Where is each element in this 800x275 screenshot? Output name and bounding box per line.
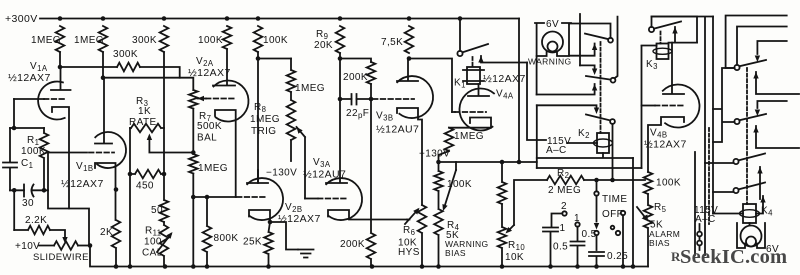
relay K4 coil — [740, 204, 760, 223]
watermark — [671, 246, 787, 268]
switch K4 contact1 — [733, 154, 765, 165]
wire R4 wiper tie — [455, 162, 457, 170]
label 6V — [546, 19, 559, 30]
svg-text:SLIDEWIRE: SLIDEWIRE — [33, 252, 89, 263]
resistor R10 upper — [498, 162, 507, 204]
label 0.5 — [582, 229, 597, 240]
wire V2B grid line — [193, 196, 235, 198]
label 100K — [263, 35, 288, 46]
label V3B — [376, 111, 393, 123]
tube V1B triode — [95, 132, 126, 168]
potentiometer R8 1MEG TRIG — [287, 92, 296, 140]
power +300V label — [5, 13, 38, 25]
label 300K — [132, 35, 157, 46]
svg-text:1MEG: 1MEG — [74, 35, 104, 46]
svg-text:RATE: RATE — [129, 117, 157, 128]
svg-text:450: 450 — [136, 181, 154, 192]
label -130V — [419, 149, 450, 160]
wiper arrow R8 — [297, 127, 306, 199]
wire K2 arm2 down — [580, 65, 597, 75]
svg-text:25K: 25K — [243, 237, 262, 248]
label OFF — [602, 209, 623, 220]
label V2B — [285, 202, 302, 214]
wire K4 contact1 feed — [705, 162, 733, 164]
label R3 1K RATE — [129, 96, 157, 128]
svg-text:BIAS: BIAS — [445, 248, 466, 258]
wire V4B plate — [663, 43, 684, 94]
label 1MEG — [454, 131, 484, 142]
label 30 — [22, 198, 34, 209]
svg-text:100K: 100K — [263, 35, 288, 46]
node A — [58, 65, 63, 70]
wire y168 line — [537, 158, 642, 267]
wire R8 to -130V — [290, 140, 292, 161]
wire V2B cathode — [249, 210, 270, 222]
svg-text:0.5: 0.5 — [582, 229, 597, 240]
node R3 wiper junction — [191, 150, 196, 155]
label 100K — [198, 35, 223, 46]
switch K2 contact3 — [586, 115, 615, 124]
svg-text:BAL: BAL — [197, 133, 217, 144]
svg-text:2 MEG: 2 MEG — [548, 185, 581, 196]
wiper arrow R4 — [442, 170, 456, 211]
wire 200K bottom — [370, 84, 372, 99]
node bottom junctions — [114, 264, 636, 269]
plug 115V — [697, 224, 702, 250]
resistor R2 2MEG — [547, 176, 584, 185]
wire V1A plate — [51, 67, 71, 90]
wire V4A grid — [452, 111, 486, 113]
resistor 25K — [264, 222, 273, 267]
svg-text:200K: 200K — [340, 239, 365, 250]
wire -130V line — [439, 161, 537, 163]
wire rail drops — [527, 63, 546, 169]
resistor 1MEG cathode — [189, 154, 198, 174]
label V3B type — [376, 124, 419, 136]
node -130V junction — [436, 160, 441, 165]
label 22pF — [346, 108, 369, 120]
svg-text:−130V: −130V — [419, 149, 450, 160]
label R11 100 CAL — [142, 226, 163, 259]
resistor 200K bottom — [367, 99, 376, 267]
node 450 ends — [128, 172, 167, 177]
wire lamp feeds — [537, 14, 580, 95]
tube V1A triode — [38, 81, 65, 119]
svg-text:½12AU7: ½12AU7 — [303, 169, 346, 181]
svg-text:1MEG: 1MEG — [31, 35, 61, 46]
label +10V — [15, 241, 40, 252]
resistor R9 20K — [336, 26, 345, 53]
node V2B cathode — [268, 220, 273, 225]
capacitor 30 — [24, 185, 34, 197]
potentiometer R4 5K — [434, 191, 443, 267]
lamp ALARM 6V — [737, 223, 765, 248]
wire V2A plate — [213, 49, 235, 86]
wire V2B plate bar — [247, 170, 268, 183]
lamp WARNING 6V — [535, 23, 571, 56]
svg-text:CAL: CAL — [142, 248, 163, 259]
svg-text:1MEG: 1MEG — [295, 83, 325, 94]
wire V2A cathode — [215, 110, 236, 197]
svg-text:300K: 300K — [113, 49, 138, 60]
potentiometer R11 100 CAL — [157, 222, 173, 267]
wire V1B cathode — [95, 163, 116, 220]
resistor 2K — [112, 220, 121, 267]
resistor 100K V2A plate — [223, 26, 232, 49]
label V2B type — [278, 213, 321, 225]
linkage K2 dashed — [600, 42, 602, 133]
resistor 100K R4 top — [434, 162, 443, 191]
wire V4B grid — [642, 105, 684, 107]
label R6 10K HYS — [398, 225, 420, 258]
svg-text:7,5K: 7,5K — [381, 37, 403, 48]
wire comb line3 — [755, 41, 787, 62]
wire K3 arm — [669, 27, 698, 43]
svg-text:TIME: TIME — [602, 194, 628, 205]
tube V4A triode — [459, 88, 494, 130]
label 6V — [766, 244, 779, 255]
svg-text:100K: 100K — [198, 35, 223, 46]
label 200K — [343, 72, 368, 83]
label V2A type — [188, 67, 231, 79]
wire V1A cathode — [52, 107, 69, 209]
wire R9 bottom node — [340, 53, 371, 99]
svg-text:½12AX7: ½12AX7 — [188, 67, 231, 79]
label V1A type — [8, 72, 51, 84]
svg-text:100: 100 — [144, 237, 162, 248]
capacitor 1 tap2 — [543, 201, 567, 267]
tube V3A triode — [326, 178, 362, 220]
wire cap30 row — [10, 189, 48, 191]
wire 22pF row — [340, 98, 371, 100]
label 0.25 — [607, 251, 628, 262]
label V2A — [196, 56, 214, 68]
wire V1A grid — [14, 98, 66, 100]
wire V3A grid — [305, 198, 346, 200]
switch K4 contact2 — [733, 183, 765, 194]
wire K2 contact3 down arrow — [537, 105, 599, 114]
wire 300K drop — [163, 52, 165, 174]
switch open contacts — [611, 226, 621, 236]
label R1 100K — [21, 135, 46, 157]
svg-text:2: 2 — [561, 201, 567, 212]
node R2 line dots — [594, 178, 615, 183]
node -130V line dots — [500, 160, 522, 165]
node 22pF junctions — [338, 97, 374, 102]
svg-text:TRIG: TRIG — [251, 126, 277, 137]
wire TIME drop — [594, 196, 599, 250]
label 450 — [136, 181, 154, 192]
wire V2B plate line — [258, 52, 291, 183]
label V4A — [496, 89, 514, 101]
relay K1 coil — [463, 67, 484, 84]
tube V3B triode — [397, 76, 433, 118]
wire K1 pivot — [459, 19, 461, 52]
potentiometer R3 1K RATE — [130, 124, 164, 133]
label 800K — [214, 233, 239, 244]
wiper arrow R5 — [637, 207, 648, 222]
switch OFF contact — [621, 211, 625, 267]
wire K4 coil feed — [713, 213, 743, 215]
wire 2.2K feed — [13, 190, 15, 230]
label V1B type — [61, 178, 104, 190]
label V4B — [650, 128, 667, 140]
capacitor C1 — [3, 128, 17, 190]
svg-text:0.5: 0.5 — [553, 242, 568, 253]
label 300K — [113, 49, 138, 60]
svg-text:−130V: −130V — [266, 168, 297, 179]
tube V2B triode — [247, 178, 283, 220]
switch comb contact2 — [734, 114, 766, 124]
wire comb left link — [713, 68, 734, 142]
potentiometer R10 10K — [498, 204, 507, 267]
node V2B grid junction — [191, 195, 209, 200]
wire slidewire sense — [48, 153, 89, 246]
label 115V A-C — [546, 136, 571, 156]
wire K2 contact3 drop — [612, 124, 614, 180]
wire K4 arm2 — [756, 196, 766, 214]
svg-text:800K: 800K — [214, 233, 239, 244]
svg-text:2K: 2K — [100, 227, 113, 238]
svg-text:WARNING: WARNING — [528, 57, 572, 67]
svg-text:½12AX7: ½12AX7 — [61, 178, 104, 190]
wire comb line4 — [755, 101, 787, 116]
potentiometer R5 5K — [644, 194, 653, 267]
svg-text:200K: 200K — [343, 72, 368, 83]
capacitor 22pF — [352, 94, 357, 105]
wire V2B grid — [237, 196, 267, 198]
svg-text:30: 30 — [22, 198, 34, 209]
node rail junctions — [58, 16, 463, 21]
potentiometer SLIDEWIRE — [54, 241, 78, 250]
resistor 300K vertical — [160, 26, 169, 52]
switch TIME — [594, 180, 598, 196]
linkage K3 dashed — [660, 32, 662, 44]
label R7 500K BAL — [197, 111, 222, 144]
wire K2 arm3 up — [537, 84, 598, 95]
label 100K — [447, 179, 472, 190]
wire lamp link — [749, 223, 751, 226]
tube V4B triode — [663, 85, 700, 128]
svg-text:HYS: HYS — [398, 247, 420, 258]
label 115V A-C alarm — [694, 205, 718, 225]
svg-text:½12AX7: ½12AX7 — [278, 213, 321, 225]
label 25K — [243, 237, 262, 248]
wire V3A plate — [326, 99, 347, 183]
switch K1 contact — [457, 44, 488, 56]
node cap30 ends — [12, 188, 46, 193]
wire comb top line1 — [726, 16, 787, 69]
label R9 20K — [314, 29, 333, 51]
svg-text:½12AX7: ½12AX7 — [483, 73, 526, 85]
label R8 1MEG TRIG — [250, 102, 280, 137]
relay K2 coil — [537, 133, 633, 158]
node R1 top — [12, 126, 17, 131]
label WARNING — [528, 57, 572, 67]
wire slidewire out — [78, 245, 90, 247]
label C1 — [21, 158, 33, 170]
wire K2 contact2 feed — [615, 17, 618, 78]
wire V3A cathode — [328, 210, 407, 220]
switch comb contact1 — [734, 60, 766, 70]
svg-text:BIAS: BIAS — [649, 238, 670, 248]
label V4A type — [483, 73, 526, 85]
wire V4A cathode — [449, 118, 491, 128]
wire K1 arm out — [478, 56, 527, 63]
node 7.5K bottom — [407, 56, 412, 61]
svg-text:50: 50 — [151, 205, 163, 216]
label R10 10K — [505, 240, 525, 263]
svg-text:1: 1 — [560, 223, 566, 234]
resistor 450 horizontal — [130, 170, 164, 179]
svg-text:1MEG: 1MEG — [250, 114, 280, 125]
svg-text:+300V: +300V — [5, 13, 38, 25]
wire bottom common rail — [90, 246, 648, 267]
label K1 — [454, 78, 466, 90]
node R9 bottom — [338, 56, 343, 61]
svg-text:A–C: A–C — [695, 214, 716, 225]
label 1MEG — [198, 163, 228, 174]
resistor 1MEG first — [56, 26, 65, 52]
label R4 5K WARNING BIAS — [445, 220, 489, 258]
svg-text:+10V: +10V — [15, 241, 40, 252]
wire 7.5K node to V4A grid — [409, 59, 452, 113]
resistor 2.2K — [14, 226, 50, 235]
ground — [298, 250, 314, 258]
label 1MEG — [31, 35, 61, 46]
svg-text:SeekIC.com: SeekIC.com — [680, 246, 787, 268]
wire grid drop — [10, 99, 44, 128]
linkage K1 dashed — [472, 57, 474, 67]
wire R2 line right — [584, 179, 645, 181]
wiper arrow R7 — [198, 96, 207, 101]
resistor 800K — [203, 197, 212, 267]
wiper arrow R10 — [506, 225, 515, 234]
resistor 1MEG V4A grid — [439, 128, 454, 162]
label K3 — [646, 59, 658, 71]
wire K2 coil feed — [567, 142, 597, 144]
wire comb up arrow2 — [753, 126, 799, 148]
label -130V — [266, 168, 297, 179]
label TIME — [602, 194, 628, 205]
svg-text:20K: 20K — [314, 40, 333, 51]
node slidewire out — [88, 243, 93, 248]
svg-text:300K: 300K — [132, 35, 157, 46]
label V1A — [30, 61, 48, 73]
switch K2 contact1 — [585, 34, 613, 43]
label K2 — [578, 128, 590, 140]
wire K2 arm1 — [569, 44, 597, 56]
wiper arrow R3 — [147, 134, 194, 153]
svg-text:1MEG: 1MEG — [454, 131, 484, 142]
label 100K — [656, 178, 681, 189]
resistor 200K top — [367, 62, 376, 84]
tube V2A triode — [214, 80, 249, 121]
svg-text:500K: 500K — [197, 121, 222, 132]
wire 2.2K to wiper — [50, 230, 65, 237]
wire V3B grid — [373, 98, 414, 100]
svg-text:½12AX7: ½12AX7 — [644, 139, 687, 151]
potentiometer R6 10K HYS — [405, 205, 426, 267]
wire V2A grid — [206, 98, 234, 100]
label 200K — [340, 239, 365, 250]
relay K3 coil — [642, 44, 673, 60]
svg-text:22pF: 22pF — [346, 108, 369, 120]
wire K3 left lead — [641, 46, 643, 168]
svg-text:OFF: OFF — [602, 209, 623, 220]
wire node B to R7 — [103, 52, 193, 90]
resistor 100K V2B plate — [254, 26, 263, 52]
switch K2 contact2 — [586, 76, 615, 83]
wire V1B grid — [48, 152, 114, 154]
capacitor 0.25 — [589, 252, 604, 267]
svg-text:2.2K: 2.2K — [25, 215, 47, 226]
wiper arrow slidewire — [62, 237, 67, 244]
resistor 1MEG divider — [287, 59, 296, 93]
label SLIDEWIRE — [33, 252, 89, 263]
resistor 7.5K — [405, 26, 414, 53]
svg-text:1K: 1K — [138, 106, 151, 117]
label 1MEG — [295, 83, 325, 94]
wire cathode to ground — [270, 222, 298, 250]
label K4 — [761, 206, 773, 218]
label 50 — [151, 205, 163, 216]
svg-text:½12AX7: ½12AX7 — [8, 72, 51, 84]
wire comb top line2 — [737, 27, 787, 65]
svg-text:10K: 10K — [505, 252, 524, 263]
wire K2 contact1 feed — [569, 24, 611, 38]
wire V3A cathode to R6 — [407, 219, 410, 221]
wire +300V rail — [40, 18, 519, 20]
label 1 — [560, 223, 566, 234]
wire V3B cathode — [397, 108, 422, 205]
resistor 300K horizontal — [117, 63, 140, 72]
wire K4 arm1 — [757, 167, 762, 199]
node V2B plate — [256, 56, 261, 61]
wire R7 to 1MEG — [192, 109, 194, 154]
node B — [101, 75, 106, 80]
label 0.5 — [553, 242, 568, 253]
svg-text:6V: 6V — [546, 19, 559, 30]
wire comb up arrow1 — [753, 72, 799, 94]
svg-text:0.25: 0.25 — [607, 251, 628, 262]
capacitor 0.5 tap1 — [571, 213, 585, 267]
wire comb bus A — [652, 17, 714, 256]
wire +10V lead — [39, 245, 54, 247]
wire V4B cathode — [648, 117, 684, 172]
svg-text:100K: 100K — [21, 146, 46, 157]
label 2K — [100, 227, 113, 238]
wire K4 contact2 feed — [713, 191, 733, 193]
wire V4A plate — [468, 84, 489, 96]
node 2K top — [114, 187, 119, 192]
svg-text:100K: 100K — [656, 178, 681, 189]
label V3A type — [303, 169, 346, 181]
svg-text:1MEG: 1MEG — [198, 163, 228, 174]
wire R3 left drop — [129, 128, 131, 267]
resistor 100K R5 top — [644, 172, 653, 194]
wire V1B plate — [95, 78, 112, 144]
label 7.5K — [381, 37, 403, 48]
svg-text:A–C: A–C — [546, 145, 567, 156]
wire rail drop right — [518, 19, 520, 163]
label V1B — [76, 161, 93, 173]
resistor 50 — [160, 174, 169, 222]
label V4B type — [644, 139, 687, 151]
label V3A — [313, 157, 331, 169]
resistor R1 100K — [40, 128, 49, 190]
label 2.2K — [25, 215, 47, 226]
